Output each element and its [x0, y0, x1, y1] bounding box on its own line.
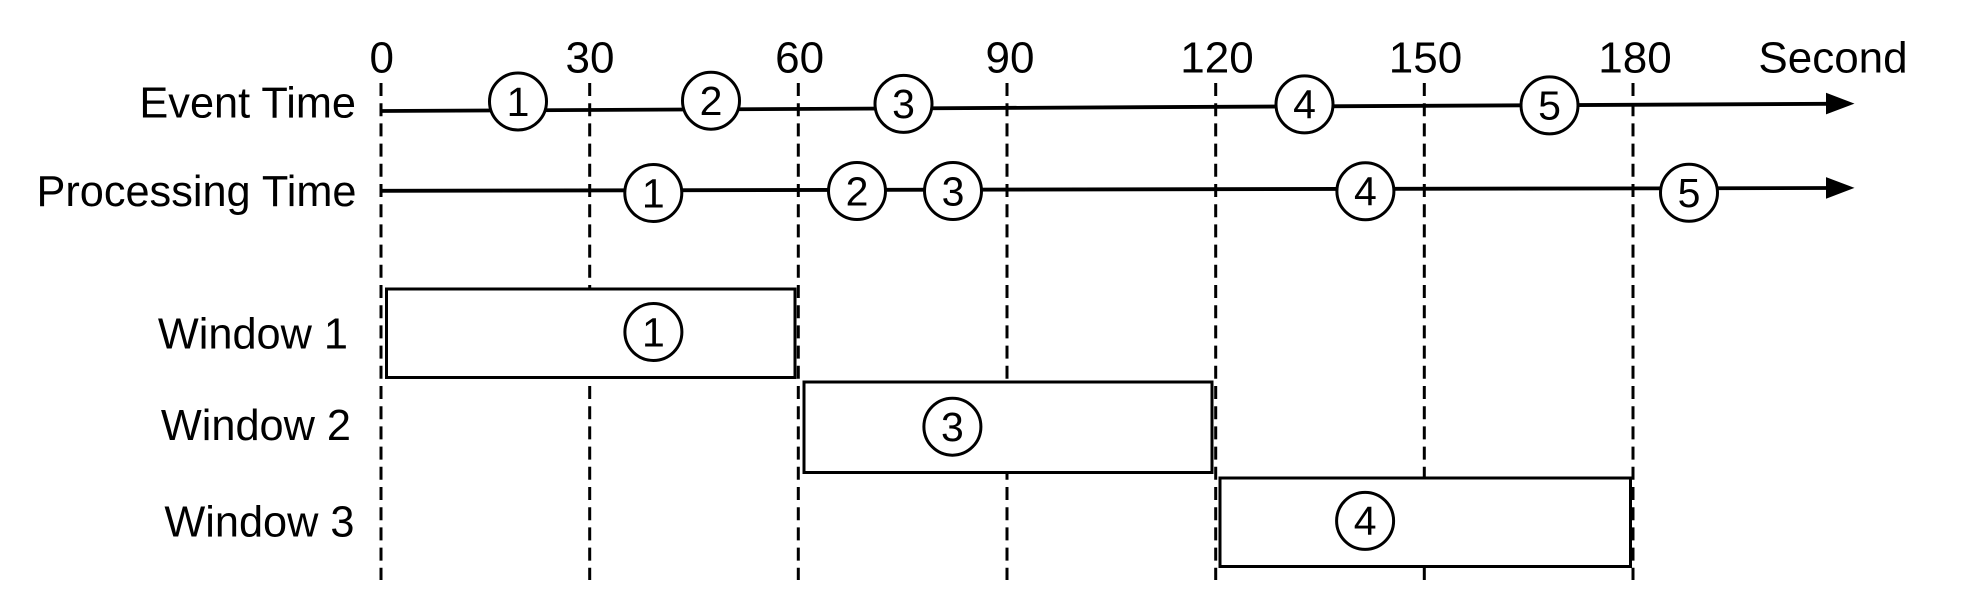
gridline t=0 — [380, 83, 383, 580]
window 2 circle 3 — [924, 398, 981, 455]
svg-text:120: 120 — [1180, 34, 1253, 83]
gridline t=150 — [1423, 83, 1426, 580]
event circle 2 — [683, 72, 740, 129]
event circle 1 — [490, 73, 547, 130]
svg-text:2: 2 — [700, 78, 723, 124]
gridline t=120 — [1214, 83, 1217, 580]
svg-text:5: 5 — [1678, 170, 1701, 216]
processing circle 3 — [925, 163, 982, 220]
window 1 rect — [387, 289, 796, 378]
svg-text:3: 3 — [941, 404, 964, 450]
window 3 circle 4 — [1337, 492, 1394, 549]
gridline t=60 — [797, 83, 800, 580]
svg-text:5: 5 — [1538, 83, 1561, 129]
processing circle 4 — [1337, 163, 1394, 220]
processing time axis line — [382, 188, 1828, 191]
svg-text:3: 3 — [892, 81, 915, 127]
svg-text:2: 2 — [846, 168, 869, 214]
event circle 3 — [875, 75, 932, 132]
svg-text:1: 1 — [507, 79, 530, 125]
processing circle 2 — [829, 163, 886, 220]
svg-text:0: 0 — [369, 34, 393, 83]
svg-text:Second: Second — [1758, 34, 1907, 83]
window 1 circle 1 — [625, 304, 682, 361]
svg-text:60: 60 — [775, 34, 824, 83]
svg-text:Window 3: Window 3 — [164, 499, 354, 547]
processing circle 5 — [1661, 164, 1718, 221]
gridline t=30 — [588, 83, 591, 580]
window 2 rect — [804, 382, 1212, 473]
svg-text:Window 2: Window 2 — [161, 402, 351, 450]
event circle 5 — [1521, 77, 1578, 134]
event time axis arrowhead — [1826, 93, 1855, 115]
event time axis line — [382, 104, 1828, 111]
window 3 rect — [1220, 478, 1631, 567]
svg-text:4: 4 — [1354, 498, 1377, 544]
gridline t=90 — [1006, 83, 1009, 580]
svg-text:30: 30 — [566, 34, 615, 83]
svg-text:3: 3 — [942, 168, 965, 214]
svg-text:Event Time: Event Time — [139, 80, 356, 128]
svg-text:4: 4 — [1354, 169, 1377, 215]
svg-text:Processing Time: Processing Time — [36, 168, 356, 216]
svg-text:1: 1 — [642, 170, 665, 216]
processing circle 1 — [625, 165, 682, 222]
svg-text:180: 180 — [1598, 34, 1671, 83]
svg-text:150: 150 — [1389, 34, 1462, 83]
svg-text:90: 90 — [986, 34, 1035, 83]
svg-text:Window 1: Window 1 — [158, 311, 348, 359]
event circle 4 — [1276, 76, 1333, 133]
processing time axis arrowhead — [1826, 177, 1855, 199]
svg-text:1: 1 — [642, 309, 665, 355]
svg-text:4: 4 — [1293, 82, 1316, 128]
gridline t=180 — [1632, 83, 1635, 580]
